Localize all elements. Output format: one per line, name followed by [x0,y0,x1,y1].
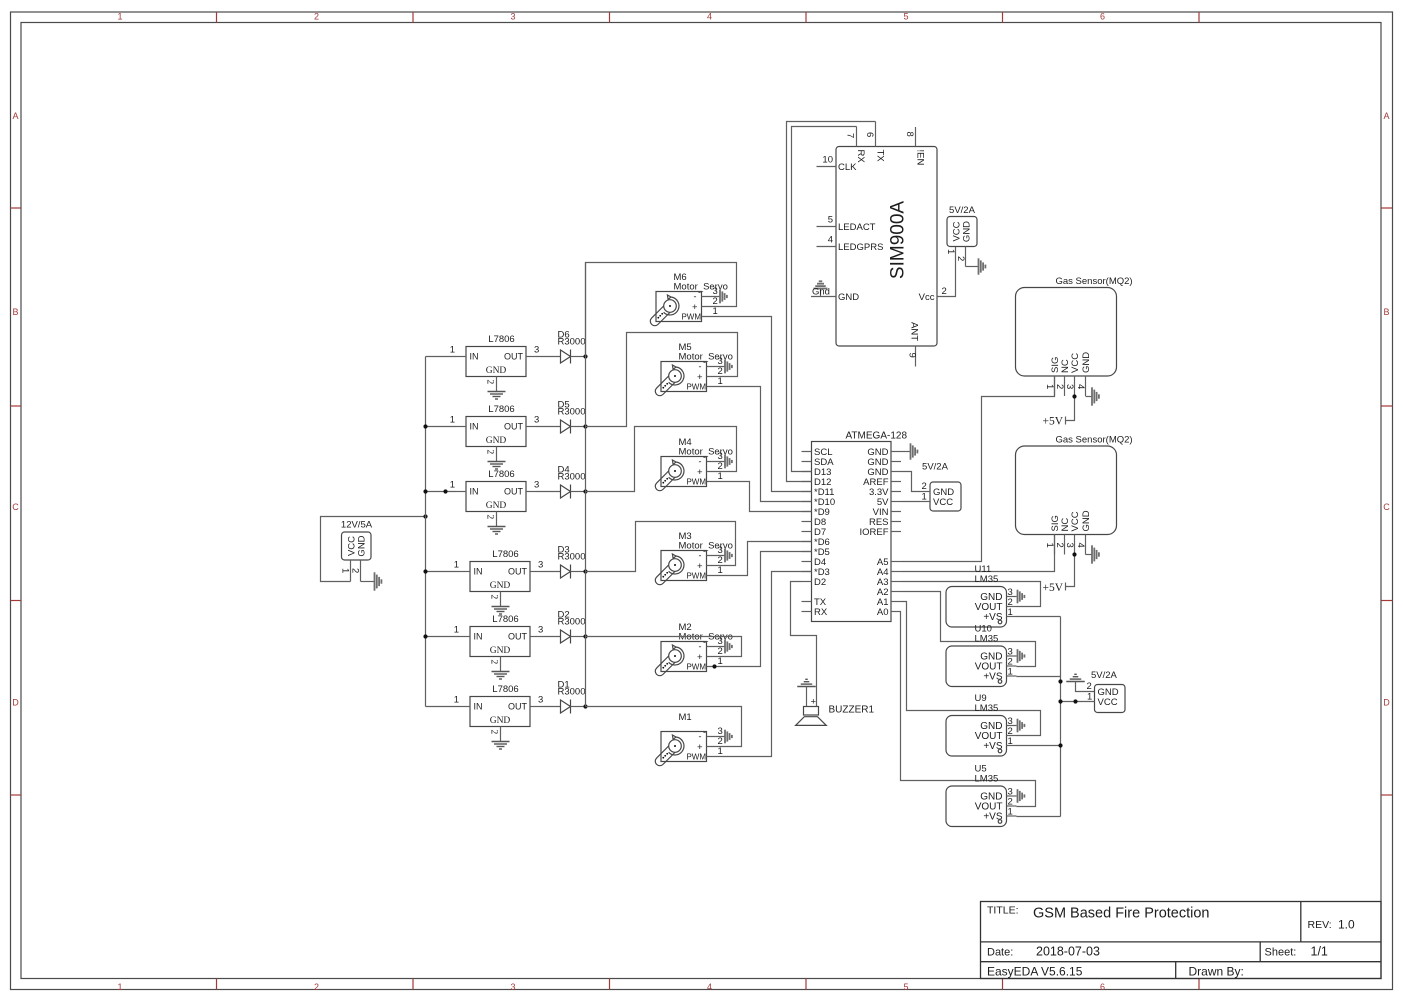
ATMEGA pin RES (right 8) [891,521,901,523]
svg-text:1: 1 [1044,384,1055,389]
wire U9 +VS to +5V bus [1017,745,1061,747]
servo motor M4 icon [653,468,678,493]
svg-text:1: 1 [718,471,723,482]
svg-text:OUT: OUT [504,487,524,497]
svg-text:1: 1 [450,415,455,426]
ATMEGA pin *D5 [802,551,812,553]
ground symbol at servo M2 [724,640,726,654]
svg-text:GSM Based Fire Protection: GSM Based Fire Protection [1033,906,1210,922]
svg-text:4: 4 [707,12,712,22]
wire M2 PWM to *D5 [707,552,812,667]
border row ticks right [1381,207,1393,209]
ATMEGA pin VIN (right 7) [891,511,901,513]
svg-text:M1: M1 [679,712,692,723]
svg-text:2: 2 [485,450,495,455]
svg-text:L7806: L7806 [488,404,514,415]
ATMEGA pin D13 [802,471,812,473]
gas sensor 2 body [1016,446,1117,535]
ATMEGA pin 3.3V (right 5) [891,491,901,493]
svg-text:GND: GND [838,292,859,303]
svg-text:GND: GND [962,221,973,242]
pin 1 IN of L7806 D6 row [456,356,466,358]
svg-text:-: - [699,362,702,372]
junction output bus D4 row [583,489,587,493]
svg-text:Vcc: Vcc [919,292,935,303]
wire M6 PWM to *D11 [702,317,812,492]
ATMEGA pin A3 [891,581,901,583]
svg-text:1: 1 [1008,607,1013,618]
svg-text:4: 4 [1075,384,1086,389]
servo motor M3 icon [653,562,678,587]
svg-text:IN: IN [470,422,479,432]
ATMEGA pin A0 [891,611,901,613]
svg-text:IN: IN [474,702,483,712]
border column ticks top [216,12,218,23]
svg-text:-: - [698,287,701,297]
connector 5V/2A (SIM supply) body [947,217,977,247]
U10 pin 1 +VS [1007,675,1017,677]
svg-text:R3000: R3000 [558,617,586,628]
pin 1 IN of L7806 D3 row [460,571,470,573]
svg-text:12V/5A: 12V/5A [341,520,373,531]
ATMEGA pin IOREF (right 9) [891,531,901,533]
svg-text:+: + [697,652,703,663]
svg-text:A: A [12,111,18,121]
svg-text:PWM: PWM [686,383,706,392]
svg-text:TX: TX [875,150,886,163]
SIM900A pin 8 !EN [915,127,917,147]
svg-text:+: + [697,561,703,572]
SIM900A pin 9 ANT [915,346,917,367]
svg-text:4: 4 [707,982,712,992]
wire ATMEGA D2 to buzzer [791,582,817,707]
temperature sensor U9 body [946,716,1007,757]
svg-text:2: 2 [1054,543,1065,548]
wire diode output bus vertical [585,357,587,707]
svg-text:LM35: LM35 [975,634,999,645]
svg-text:LM35: LM35 [975,774,999,785]
svg-text:A: A [1383,111,1389,121]
svg-text:IN: IN [474,567,483,577]
svg-text:1: 1 [1008,807,1013,818]
ATMEGA pin D7 [802,531,812,533]
svg-text:1: 1 [454,695,459,706]
svg-text:5: 5 [828,215,833,226]
ground symbol above buzzer [797,686,816,688]
wire diode D1 to output bus [571,706,586,708]
svg-text:IN: IN [470,352,479,362]
svg-text:1: 1 [945,249,956,254]
svg-text:2: 2 [489,660,499,665]
ATMEGA pin D2 [802,581,812,583]
svg-text:1: 1 [718,376,723,387]
pin 2 GND of L7806 D5 row [496,447,498,462]
junction bus D5 row [423,424,427,428]
ATMEGA pin A4 [891,571,901,573]
svg-text:6: 6 [864,132,875,137]
wire M4 supply loop from D4 node [586,427,737,492]
connector sensor 5V/2A pin 1 VCC [1061,701,1095,703]
svg-text:BUZZER1: BUZZER1 [829,705,875,716]
svg-text:1: 1 [713,306,718,317]
svg-text:2: 2 [485,380,495,385]
servo motor M2 body [661,642,707,672]
ground symbol at 12V connector [374,572,376,590]
ATMEGA pin *D11 [802,491,812,493]
U9 pin 1 +VS [1007,745,1017,747]
svg-text:5V/2A: 5V/2A [949,205,976,216]
svg-text:A0: A0 [877,607,889,618]
svg-text:3: 3 [538,695,543,706]
SIM900A pin 3 GND and Gnd net flag [811,296,836,298]
svg-text:VCC: VCC [1070,511,1081,531]
svg-text:+: + [811,697,817,708]
svg-text:3: 3 [534,415,539,426]
ATMEGA pin RX [802,611,812,613]
SIM900A pin 5 LEDACT [817,226,837,228]
U10 pin 3 GND [1007,655,1017,657]
junction M2 PWM pin [712,664,716,668]
SIM900A pin 10 CLK [817,166,837,168]
svg-text:-: - [703,357,706,367]
wire bus to U1 IN [426,356,457,358]
svg-text:D: D [12,698,19,708]
svg-text:R3000: R3000 [558,472,586,483]
svg-text:GND: GND [490,581,511,591]
wire M6 supply loop from D6 node [586,263,737,357]
wire left power bus vertical [425,357,427,707]
svg-text:Date:: Date: [987,947,1013,959]
svg-text:1: 1 [450,480,455,491]
wire SIM900A TX to ATMEGA D12 [787,122,876,482]
svg-text:5: 5 [903,12,908,22]
wire bus to U4 IN [426,571,461,573]
junction bus D4 row [423,489,427,493]
wire +5V bus vertical [1060,617,1062,817]
connector SIM 5V/2A pin 2 GND [965,247,967,267]
svg-text:5V/2A: 5V/2A [1091,670,1118,681]
ground symbol at U11 [1017,590,1019,604]
svg-text:SIM900A: SIM900A [888,201,909,279]
ground symbol at ATMEGA GND [910,443,912,459]
pin 3 OUT of L7806 D4 row [526,491,536,493]
svg-text:3: 3 [1064,543,1075,548]
border row ticks left [11,207,22,209]
wire diode D3 to output bus [571,571,586,573]
wire diode D5 to output bus [571,426,586,428]
mcu ATMEGA-128 body [812,442,892,622]
wire gas sensor 1 VCC to +5V flag [1066,397,1075,421]
servo motor M2 icon [653,653,678,678]
U9 pin 2 VOUT [1007,735,1017,737]
svg-text:-: - [703,727,706,737]
ATMEGA pin GND (right 1) [891,451,901,453]
connector P1 12V/5A body [342,532,372,560]
ATMEGA pin *D10 [802,501,812,503]
svg-text:2: 2 [485,515,495,520]
U9 pin 3 GND [1007,725,1017,727]
svg-text:PWM: PWM [686,663,706,672]
svg-text:B: B [1383,307,1389,317]
svg-text:OUT: OUT [504,352,524,362]
svg-text:-: - [699,457,702,467]
ground symbol at U10 [1017,649,1019,663]
svg-text:3: 3 [538,560,543,571]
wire bus to U7 IN [426,706,461,708]
wire M3 PWM to *D6 [707,542,812,576]
SIM900A pin 6 TX [875,122,877,147]
wire sensor 5V/2A GND to ground [1076,682,1095,692]
svg-text:3: 3 [534,480,539,491]
ground symbol under L7806 D1 row [492,741,510,743]
gas sensor 1 pin 4 GND [1085,376,1087,396]
wire ATMEGA A1 to U9 VOUT [901,602,1041,736]
pin 3 OUT of L7806 D2 row [530,636,540,638]
svg-text:1: 1 [450,345,455,356]
svg-text:+: + [692,302,698,313]
svg-text:2: 2 [314,12,319,22]
ground symbol under L7806 D6 row [488,391,506,393]
wire diode D2 to output bus [571,636,586,638]
svg-text:-: - [694,292,697,302]
svg-text:GND: GND [486,501,507,511]
ground symbol at servo M4 [724,455,726,469]
wire 12V GND to ground [361,581,375,583]
svg-text:IN: IN [474,632,483,642]
SIM900A pin 4 LEDGPRS [817,246,837,248]
svg-text:ATMEGA-128: ATMEGA-128 [846,431,908,442]
svg-text:OUT: OUT [504,422,524,432]
wire gas sensor 1 GND to ground [1086,396,1092,398]
wire ATMEGA A3 to U11 VOUT [901,582,1041,607]
svg-text:R3000: R3000 [558,337,586,348]
ATMEGA pin D12 [802,481,812,483]
svg-text:1: 1 [718,746,723,757]
svg-text:1: 1 [340,568,351,573]
wire U5 +VS to +5V bus [1017,816,1061,818]
svg-text:Sheet:: Sheet: [1265,947,1297,959]
ATMEGA pin D8 [802,521,812,523]
U5 pin 2 VOUT [1007,805,1017,807]
wire OUT to diode D2 [540,636,561,638]
ground symbol at servo M1 [724,730,726,744]
temperature sensor U11 body [946,587,1007,628]
wire ATMEGA GND to ground [901,451,910,453]
svg-text:2018-07-03: 2018-07-03 [1036,945,1100,959]
pin 3 OUT of L7806 D6 row [526,356,536,358]
wire OUT to diode D3 [540,571,561,573]
svg-text:1: 1 [718,565,723,576]
svg-text:5V/2A: 5V/2A [922,462,949,473]
svg-text:!EN: !EN [915,150,926,166]
svg-text:GND: GND [357,535,368,556]
ATMEGA pin *D9 [802,511,812,513]
svg-text:2: 2 [922,481,927,492]
pin 1 IN of L7806 D4 row [456,491,466,493]
junction output bus D6 row [583,354,587,358]
ground symbol at servo M3 [724,549,726,563]
pin 1 IN of L7806 D2 row [460,636,470,638]
svg-text:GND: GND [1081,352,1092,373]
gas sensor 2 pin 4 GND [1085,535,1087,555]
gas sensor 1 pin 3 VCC [1074,376,1076,396]
svg-text:-: - [699,732,702,742]
svg-text:R3000: R3000 [558,552,586,563]
connector 5V/2A (ATMEGA supply) body [930,482,961,511]
svg-text:PWM: PWM [681,313,701,322]
svg-text:D2: D2 [814,577,826,588]
svg-text:L7806: L7806 [488,334,514,345]
connector P1 pin 1 VCC [350,560,352,582]
gas sensor 2 pin 2 NC [1064,535,1066,555]
junction sensor VCC on +5V bus [1058,699,1062,703]
wire gas sensor 2 VCC to +5V flag [1066,555,1075,587]
svg-text:RX: RX [855,150,866,164]
border column ticks bottom [216,979,218,990]
servo motor M4 body [661,457,707,487]
wire bus to U2 IN [426,426,457,428]
wire servo output bus vertical [585,263,587,357]
svg-text:1: 1 [117,982,122,992]
wire M5 PWM to *D10 [707,387,812,502]
svg-text:LM35: LM35 [975,703,999,714]
svg-text:5: 5 [903,982,908,992]
svg-text:REV:: REV: [1308,919,1332,931]
servo motor M1 body [661,732,707,762]
wire 12V VCC to power bus [321,517,426,582]
junction on D4 row wire [443,489,447,493]
svg-text:C: C [1383,502,1390,512]
ground symbol above sensor 5V/2A [1066,681,1085,683]
svg-text:PWM: PWM [686,572,706,581]
pin 1 IN of L7806 D5 row [456,426,466,428]
pin 2 GND of L7806 D3 row [500,592,502,607]
svg-text:+5V: +5V [1042,582,1063,594]
SIM900A pin 7 RX [856,127,858,147]
ground symbol at SIM 5V/2A [978,258,980,274]
junction output bus D5 row [583,424,587,428]
pin 3 OUT of L7806 D5 row [526,426,536,428]
servo motor M6 body [656,292,702,322]
wire ATMEGA GND3 to 5V/2A connector pin 2 [901,472,920,492]
ground symbol at servo M6 [719,290,721,304]
svg-text:PWM: PWM [686,753,706,762]
pin 3 OUT of L7806 D3 row [530,571,540,573]
svg-text:C: C [12,502,19,512]
svg-text:Drawn By:: Drawn By: [1189,965,1244,979]
junction gas sensor 1 VCC [1072,394,1076,398]
svg-text:EasyEDA V5.6.15: EasyEDA V5.6.15 [987,965,1083,979]
junction on sensor VCC wire [1073,699,1077,703]
svg-text:IN: IN [470,487,479,497]
svg-text:-: - [703,546,706,556]
svg-text:VCC: VCC [1098,697,1118,708]
gas sensor 2 pin 3 VCC [1074,535,1076,555]
wire bus to U6 IN [426,636,461,638]
svg-text:3: 3 [510,12,515,22]
junction bus D2 row [423,634,427,638]
svg-text:+5V: +5V [1042,416,1063,428]
svg-text:PWM: PWM [686,478,706,487]
svg-text:1: 1 [117,12,122,22]
junction output bus D3 row [583,569,587,573]
svg-text:RX: RX [814,607,828,618]
ATMEGA pin GND (right 3) [891,471,901,473]
wire M1 supply loop from D1 node [586,707,742,747]
svg-text:LEDGPRS: LEDGPRS [838,242,883,253]
svg-text:-: - [699,551,702,561]
connector P1 pin 2 GND [360,560,362,582]
junction U9 +VS on bus [1058,743,1062,747]
wire M2 supply loop from D2 node [586,637,742,657]
svg-text:R3000: R3000 [558,687,586,698]
svg-text:6: 6 [1100,982,1105,992]
svg-text:OUT: OUT [508,632,528,642]
svg-text:+: + [697,467,703,478]
wire SIM900A Vcc to 5V/2A connector [937,247,956,297]
svg-text:IOREF: IOREF [859,527,888,538]
svg-text:GND: GND [486,366,507,376]
svg-text:1/1: 1/1 [1311,945,1328,959]
wire ATMEGA A4 to gas sensor 2 SIG [901,535,1055,572]
pin 2 GND of L7806 D1 row [500,727,502,742]
junction output bus D1 row [583,704,587,708]
ground symbol under L7806 D2 row [492,671,510,673]
svg-text:4: 4 [1075,543,1086,548]
svg-text:3: 3 [538,625,543,636]
ground symbol under L7806 D3 row [492,606,510,608]
U11 pin 1 +VS [1007,616,1017,618]
servo motor M5 icon [653,373,678,398]
svg-text:3: 3 [510,982,515,992]
svg-text:1: 1 [718,656,723,667]
junction gas sensor 2 VCC [1072,552,1076,556]
svg-text:L7806: L7806 [492,614,518,625]
wire M3 supply loop from D3 node [586,522,736,572]
gas sensor 2 pin 1 SIG [1054,535,1056,555]
wire ATMEGA A5 to gas sensor 1 SIG [901,376,1055,562]
svg-text:TITLE:: TITLE: [987,905,1019,917]
wire U10 +VS to +5V bus [1017,676,1061,678]
svg-text:2: 2 [489,730,499,735]
svg-text:+: + [697,372,703,383]
temperature sensor U5 body [946,786,1007,827]
svg-text:3: 3 [1064,384,1075,389]
svg-text:B: B [12,307,18,317]
wire diode D4 to output bus [571,491,586,493]
svg-text:3: 3 [534,345,539,356]
wire M1 PWM to *D3 [707,572,812,757]
U11 pin 2 VOUT [1007,606,1017,608]
svg-text:2: 2 [1054,384,1065,389]
svg-text:4: 4 [828,235,833,246]
svg-text:D: D [1383,698,1390,708]
wire gas sensor 2 GND to ground [1086,554,1092,556]
wire ATMEGA 5V to 5V/2A connector pin 1 [901,501,920,503]
svg-text:2: 2 [314,982,319,992]
svg-text:-: - [703,637,706,647]
svg-text:GND: GND [490,716,511,726]
svg-text:Gas Sensor(MQ2): Gas Sensor(MQ2) [1056,435,1133,446]
ATMEGA pin TX [802,601,812,603]
svg-text:L7806: L7806 [492,549,518,560]
wire buzzer negative terminal to ground [806,687,808,707]
svg-text:2: 2 [489,595,499,600]
wire OUT to diode D1 [540,706,561,708]
ground symbol under L7806 D4 row [488,526,506,528]
svg-text:-: - [699,642,702,652]
svg-text:1: 1 [1008,736,1013,747]
